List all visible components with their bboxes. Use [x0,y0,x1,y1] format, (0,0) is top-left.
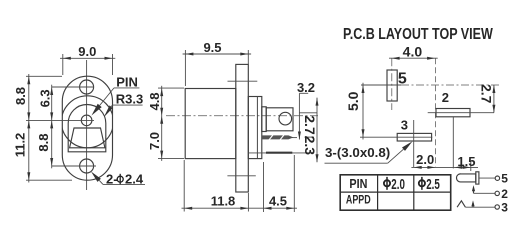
centerline dash-dot [166,115,318,117]
dim 5.0 [345,83,364,140]
dim 3.2 leader [297,80,315,140]
label 2-phi2.4 with leader [91,172,145,187]
svg-text:2.7: 2.7 [479,84,495,104]
pin 5 plug symbol [456,172,508,186]
svg-text:3: 3 [401,118,408,133]
svg-text:PIN: PIN [116,75,138,90]
dim 2.7 pcb [479,84,496,113]
flange cross line top [228,80,258,82]
svg-text:R3.3: R3.3 [116,92,143,107]
svg-text:11.2: 11.2 [13,133,28,158]
body rectangle [185,89,236,159]
label 3-(3.0x0.8) [325,141,413,163]
cell phi2.0 [384,180,390,186]
svg-text:2.7: 2.7 [302,115,318,135]
flange plate [236,64,249,192]
svg-text:9.0: 9.0 [78,44,96,59]
svg-text:5: 5 [501,172,508,186]
rear housing block [248,97,261,159]
svg-text:4.8: 4.8 [147,92,162,110]
top mounting hole [80,80,94,94]
svg-text:8.8: 8.8 [13,87,28,105]
svg-text:4.0: 4.0 [403,43,423,59]
boss circle [61,96,113,148]
pad2 vertical centerline down [452,117,454,168]
barrel hole circle [279,112,292,125]
svg-text:2.0: 2.0 [391,176,405,193]
bottom mounting hole [80,159,94,173]
dim 9.0 [60,44,115,75]
svg-text:3-(3.0x0.8): 3-(3.0x0.8) [325,145,390,160]
dim 4.8 / 7.0 [147,86,184,161]
pad3 vertical centerline down [413,120,415,167]
svg-text:6.3: 6.3 [38,89,53,107]
flange cross line bottom [227,175,255,177]
pad2 horizontal centerline [428,112,494,114]
dim 8.8 / 11.2 outer left [13,74,72,183]
centerline vertical [86,60,88,190]
svg-text:3: 3 [501,200,508,214]
barrel [266,108,293,131]
label PIN with leader [92,75,140,116]
svg-text:5.0: 5.0 [345,91,361,111]
label R3.3 with leader [104,92,143,118]
pad3 horizontal centerline [360,136,432,138]
svg-text:2.3: 2.3 [302,136,318,156]
dim 9.5 [183,40,252,86]
clip block [262,107,266,132]
svg-text:2: 2 [501,187,508,201]
svg-text:2.0: 2.0 [416,152,434,167]
svg-text:2: 2 [442,90,449,105]
dim 6.3 / 8.8 inner left [36,85,53,169]
cell phi2.5 [419,180,425,186]
svg-text:4.5: 4.5 [269,194,287,209]
dim 2.3 / 2.7 lines [299,98,318,163]
R3.3 arch opening [68,104,106,151]
svg-text:7.0: 7.0 [147,132,162,150]
svg-text:2.5: 2.5 [426,176,440,193]
svg-text:1.5: 1.5 [457,154,475,169]
pin 2 contact symbol [472,185,508,201]
dim 2.0 / 1.5 [411,152,478,171]
svg-text:APPD: APPD [346,193,371,207]
svg-text:3.2: 3.2 [297,80,315,95]
trapezoid tongue [70,128,105,148]
dashed outline vertical right [435,58,437,166]
pad 2 [436,109,470,117]
svg-text:11.8: 11.8 [211,194,236,209]
pin 3 spring contact symbol [457,200,508,214]
center pin circle [81,115,92,126]
contact strip (pin2 lug) [262,135,297,140]
svg-text:8.8: 8.8 [36,134,51,152]
bottom hole crosshair [52,165,96,167]
pin crosshair / extension [26,119,94,121]
horizontal centerline through pad5 going right [361,84,401,86]
flange stadium outline [62,76,112,180]
svg-text:9.5: 9.5 [203,40,221,55]
pad 3 [397,133,431,141]
pad 5 [387,70,397,101]
svg-text:PIN: PIN [349,177,367,191]
top hole crosshair [52,86,94,88]
vertical centerline pad5 [391,58,393,110]
svg-text:P.C.B LAYOUT TOP VIEW: P.C.B LAYOUT TOP VIEW [343,26,493,44]
lower contact strip (pin3) [249,152,314,154]
dim 4.0 [389,43,438,59]
dim 11.8 / 4.5 [182,155,298,212]
